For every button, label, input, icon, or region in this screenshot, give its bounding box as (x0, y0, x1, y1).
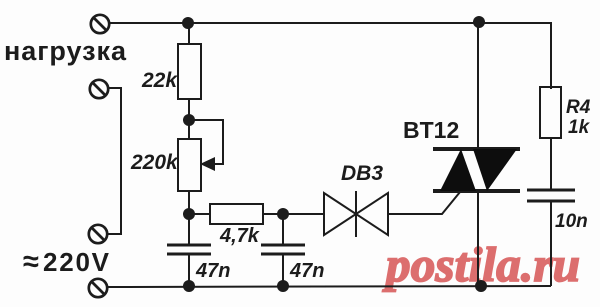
svg-text:4,7k: 4,7k (219, 225, 260, 247)
triac BT12 right triangle (473, 149, 517, 191)
junction node pot-top (183, 114, 195, 126)
wire capacitor C2 top lead (282, 214, 284, 244)
wire main vertical bottom (477, 190, 479, 286)
svg-text:BT12: BT12 (403, 117, 459, 143)
wire top rail (109, 22, 551, 24)
resistor 22k (178, 44, 201, 99)
wire 22k top lead (188, 23, 190, 44)
triac BT12 top bar (433, 147, 520, 151)
wire pot wiper loop (189, 120, 223, 164)
svg-text:22k: 22k (141, 69, 178, 92)
terminal 2 (90, 80, 108, 98)
wire capacitor C2 bottom lead (282, 255, 284, 286)
terminal 1 (91, 15, 109, 33)
resistor 4,7k (210, 204, 263, 224)
wire bottom rail (108, 286, 551, 287)
terminal 4 (89, 279, 107, 297)
svg-text:нагрузка: нагрузка (4, 36, 127, 66)
terminal 3 (89, 225, 107, 243)
svg-text:47n: 47n (195, 260, 230, 282)
wire right vertical to R4 (550, 22, 552, 89)
wire terminal2 to vertical link (107, 88, 121, 234)
svg-text:220k: 220k (130, 151, 179, 174)
junction node bottom-A (183, 280, 195, 292)
diac DB3 center bar (355, 191, 357, 237)
wire diac to gate (388, 192, 460, 214)
triac BT12 left triangle (440, 149, 476, 191)
junction node bottom-C (475, 280, 487, 292)
svg-text:47n: 47n (289, 260, 324, 282)
wire node to 4,7k (189, 213, 210, 215)
triac BT12 bottom bar (433, 189, 520, 193)
junction node RC-left (183, 208, 195, 220)
wire capacitor C1 bottom lead (188, 255, 190, 286)
svg-text:DB3: DB3 (341, 162, 383, 185)
junction node top-C (473, 16, 485, 28)
svg-text:220V: 220V (43, 247, 110, 277)
wire C3 bottom lead (550, 202, 552, 286)
diac DB3 left triangle (324, 193, 356, 235)
junction node bottom-B (277, 280, 289, 292)
svg-text:1k: 1k (568, 117, 591, 138)
wire R4 to C3 (550, 138, 552, 190)
wire pot bottom lead (188, 191, 190, 214)
wire 22k bottom to pot top (188, 99, 190, 139)
svg-text:10n: 10n (555, 211, 588, 232)
junction node RC-right (277, 208, 289, 220)
wire capacitor C1 top lead (188, 214, 190, 244)
potentiometer 220k body (178, 139, 201, 191)
capacitor C3 10n plates (527, 189, 575, 192)
wire 4,7k right lead (263, 213, 283, 215)
wire main vertical top (477, 23, 479, 150)
wiper arrowhead (200, 157, 215, 171)
junction node top-A (182, 17, 194, 29)
capacitor C1 47n plates (167, 244, 211, 247)
resistor R4 (540, 87, 561, 138)
capacitor C2 47n plates (261, 244, 305, 247)
diac DB3 right triangle (356, 193, 388, 235)
svg-text:≈: ≈ (23, 246, 39, 278)
svg-text:R4: R4 (566, 97, 591, 118)
wire node B to diac (283, 213, 324, 215)
